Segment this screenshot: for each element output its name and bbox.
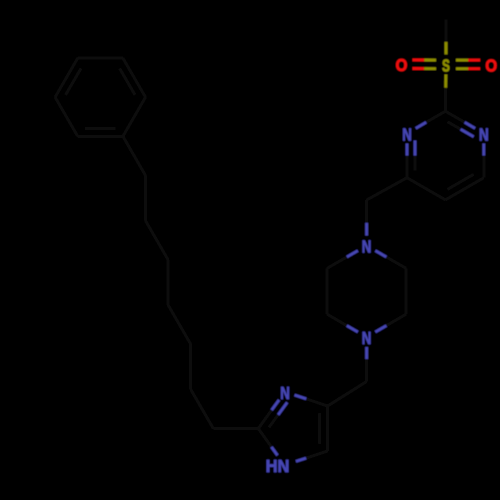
piperazine bond C2-C3 <box>405 268 408 314</box>
svg-text:O: O <box>485 56 497 75</box>
pyrimidine double bond N1=C4 <box>407 141 415 178</box>
chain bond CE-CF <box>146 221 169 260</box>
imidazole bond C5-N1 <box>296 451 328 461</box>
piperazine bond C3-N4 <box>375 314 406 332</box>
double bond S=O right <box>456 60 480 69</box>
svg-text:O: O <box>396 56 408 75</box>
pyrimidine double bond C5=C6 <box>445 174 483 200</box>
bond CH2-C4 imidazole <box>328 382 367 407</box>
piperazine bond N1-C6 <box>327 251 358 269</box>
piperazine bond C5-N4 <box>327 314 358 332</box>
chain bond C2 imidazole-CA <box>213 427 258 430</box>
svg-text:N: N <box>362 329 372 348</box>
bond S-C2 pyrimidine <box>444 74 447 111</box>
benzene double bond 4 <box>55 58 81 97</box>
chain bond CG-phenyl <box>123 136 146 175</box>
bond N4 piperazine-CH2 <box>365 347 368 382</box>
svg-text:N: N <box>280 384 290 403</box>
svg-text:N: N <box>479 126 489 145</box>
imidazole bond N3-C4 <box>295 395 328 406</box>
chain bond CF-CG <box>144 176 147 221</box>
piperazine bond C6-C5 <box>326 268 329 314</box>
piperazine bond N1-C2 <box>375 251 406 269</box>
svg-text:N: N <box>362 238 372 257</box>
pyrimidine double bond C2=N3 <box>445 111 475 137</box>
bond pyrimidine C4-CH2 <box>367 178 407 200</box>
bond CH3-S (methyl to sulfur) <box>445 19 448 54</box>
pyrimidine bond N3-C6 <box>482 143 485 177</box>
chain bond CB-CC <box>189 344 192 389</box>
bond CH2-N1 piperazine <box>365 200 368 236</box>
chain bond CD-CE <box>167 260 170 305</box>
benzene bond 5 <box>55 97 78 136</box>
benzene double bond 6 <box>78 128 123 136</box>
imidazole double bond N3=C2 <box>258 400 287 429</box>
benzene bond 1 <box>123 97 146 136</box>
pyrimidine bond C2-N1 <box>416 111 446 128</box>
pyrimidine bond C4-C5 <box>407 178 445 200</box>
benzene bond 3 <box>78 57 123 60</box>
chain bond CA-CB <box>191 389 214 428</box>
imidazole double bond C4=C5 <box>320 406 328 451</box>
svg-text:N: N <box>402 126 412 145</box>
svg-text:S: S <box>442 57 450 76</box>
benzene double bond 2 <box>120 58 146 97</box>
double bond S=O left <box>413 60 437 69</box>
svg-text:HN: HN <box>266 457 289 477</box>
chain bond CC-CD <box>168 305 191 344</box>
imidazole bond N1-C2 <box>258 429 277 456</box>
